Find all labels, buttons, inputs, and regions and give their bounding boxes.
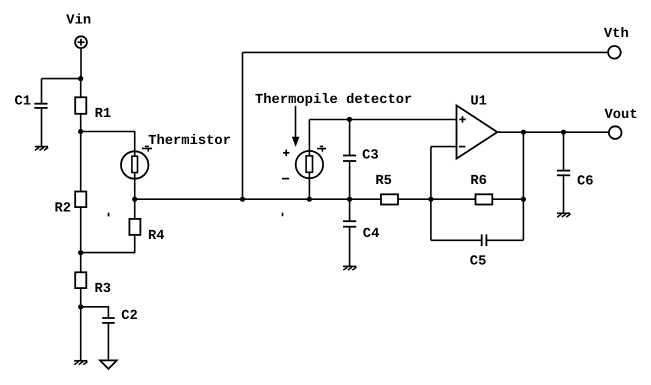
node feedback right	[521, 197, 526, 202]
resistor R4	[129, 219, 140, 235]
wire main rail	[135, 198, 381, 200]
wire C6 bottom lead	[563, 175, 565, 213]
wire R2 bottom	[80, 207, 82, 253]
wire R4 bottom	[81, 235, 135, 253]
node Vin/C1/R1	[78, 76, 83, 81]
wire R3 bottom	[80, 288, 82, 307]
wire R1 bottom	[80, 114, 82, 132]
polarity mark thermopile	[317, 146, 326, 151]
svg-text:C6: C6	[577, 175, 594, 190]
wire Vth vertical	[242, 52, 244, 199]
capacitor C4	[343, 221, 356, 227]
stray tick 1	[108, 213, 110, 217]
wire to R4	[134, 199, 136, 219]
wire thermopile bottom	[308, 178, 310, 199]
terminal Vout	[609, 126, 622, 139]
svg-text:Vth: Vth	[604, 27, 629, 42]
svg-text:C4: C4	[363, 227, 380, 242]
wire to C2	[81, 307, 109, 318]
ground rail	[74, 361, 87, 365]
ground C1	[35, 147, 48, 151]
wire feedback vertical	[522, 132, 524, 240]
label + thermopile	[283, 150, 289, 157]
terminal Vth	[608, 46, 621, 59]
wire C3 bottom lead	[349, 161, 351, 199]
wire C1 bottom lead	[41, 108, 43, 147]
earth ground C2	[100, 360, 117, 369]
svg-text:R1: R1	[95, 107, 112, 122]
op-amp U1	[457, 105, 498, 158]
wire C1 top lead	[41, 79, 43, 104]
svg-text:Thermopile detector: Thermopile detector	[255, 93, 412, 108]
ground C6	[557, 213, 570, 217]
capacitor C6	[557, 171, 570, 176]
wire C5 right	[486, 239, 523, 241]
polarity mark thermistor	[142, 146, 152, 151]
capacitor C1	[34, 104, 47, 108]
wire thermistor bottom	[134, 179, 136, 200]
node C3 top	[347, 117, 352, 122]
wire R5 to node	[398, 198, 476, 200]
wire noninverting input	[309, 119, 456, 121]
svg-text:C2: C2	[121, 309, 138, 324]
wire C4 top lead	[349, 199, 351, 221]
wire to C1	[42, 78, 81, 80]
resistor R2	[75, 192, 86, 208]
wire R2 top	[80, 132, 82, 192]
wire output	[497, 131, 609, 133]
node Vth rail	[240, 197, 245, 202]
svg-text:C1: C1	[15, 94, 32, 109]
svg-text:C3: C3	[362, 148, 379, 163]
svg-text:R5: R5	[375, 174, 392, 189]
svg-text:R2: R2	[55, 201, 72, 216]
resistor R6	[476, 194, 493, 204]
wire Vth horizontal	[243, 51, 609, 53]
wire C6 top lead	[563, 132, 565, 170]
svg-text:U1: U1	[470, 94, 487, 109]
node C3/C4/rail	[347, 197, 352, 202]
wire Vin stem	[80, 48, 82, 78]
capacitor C2	[102, 318, 115, 323]
wire R6 right	[492, 198, 523, 200]
capacitor C3	[343, 156, 356, 162]
wire C5 left	[431, 239, 482, 241]
wire inverting input	[431, 146, 457, 148]
node output feedback	[521, 130, 526, 135]
svg-text:Vin: Vin	[66, 14, 91, 29]
thermopile detector	[296, 151, 323, 178]
ground C4	[343, 266, 356, 270]
wire C2 bottom lead	[107, 323, 109, 361]
node R1/R2/thermistor	[78, 129, 83, 134]
wire inverting vertical	[430, 147, 432, 241]
wire rail bottom	[80, 307, 82, 361]
svg-text:R6: R6	[470, 174, 487, 189]
wire C4 bottom lead	[349, 227, 351, 267]
label - thermopile	[282, 178, 289, 180]
capacitor C5	[482, 234, 487, 246]
svg-text:C5: C5	[470, 254, 487, 269]
resistor R1	[75, 97, 86, 114]
wire thermopile top	[308, 120, 310, 152]
node R2/R3/R4	[78, 250, 83, 255]
node thermopile/rail	[307, 197, 312, 202]
wire R3 top	[80, 253, 82, 273]
svg-text:Vout: Vout	[605, 108, 638, 123]
resistor R5	[381, 194, 398, 204]
svg-text:Thermistor: Thermistor	[148, 134, 231, 149]
thermistor	[121, 151, 148, 178]
wire to thermistor	[81, 132, 135, 152]
node C6 top	[561, 130, 566, 135]
svg-text:R4: R4	[148, 229, 165, 244]
wire C3 top lead	[349, 120, 351, 156]
terminal Vin	[75, 36, 87, 48]
node inverting	[428, 197, 433, 202]
node R3/C2/ground	[78, 304, 83, 309]
wire rail to R1	[80, 79, 82, 98]
svg-text:R3: R3	[95, 282, 112, 297]
resistor R3	[75, 272, 86, 288]
node thermistor/R4/rail	[132, 197, 137, 202]
stray tick 2	[282, 213, 284, 217]
arrow to thermopile	[292, 106, 300, 147]
